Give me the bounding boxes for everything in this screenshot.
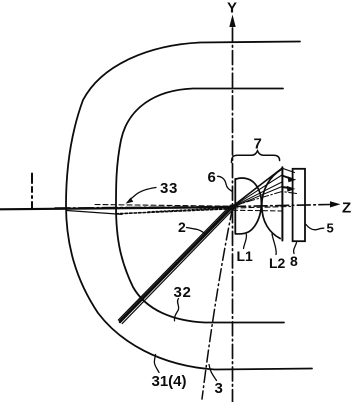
inner spherical surface 32/33 bbox=[116, 89, 284, 323]
lens L2 bbox=[262, 167, 283, 240]
ray dashed axis-near right bbox=[233, 207, 291, 209]
svg-text:Z: Z bbox=[342, 200, 351, 217]
cover plate 8 bbox=[293, 169, 305, 241]
outer spherical surface 31(4) bbox=[66, 42, 312, 370]
svg-text:8: 8 bbox=[290, 253, 298, 269]
Z axis bbox=[55, 201, 341, 208]
svg-text:5: 5 bbox=[327, 221, 334, 236]
svg-text:2: 2 bbox=[178, 219, 186, 235]
svg-text:3: 3 bbox=[215, 380, 223, 397]
svg-text:6: 6 bbox=[208, 169, 216, 186]
svg-text:33: 33 bbox=[160, 180, 178, 197]
svg-text:7: 7 bbox=[254, 136, 262, 153]
ray arrow lower into plate bbox=[287, 186, 296, 192]
object tick 1 (dashed) bbox=[31, 174, 33, 209]
brace 7 over lens group bbox=[232, 151, 280, 163]
node: focus knot at origin bbox=[230, 204, 235, 209]
Y axis bbox=[229, 15, 235, 403]
ray dashed below axis right bbox=[233, 209, 283, 212]
oblique axis line 3 bbox=[202, 208, 233, 399]
svg-text:31(4): 31(4) bbox=[152, 373, 187, 390]
ray dash-dot through lens bbox=[233, 192, 297, 207]
svg-text:Y: Y bbox=[227, 0, 237, 17]
lens L1 bbox=[235, 178, 261, 234]
ray fan through lenses bbox=[233, 168, 295, 207]
wire: beam ray dotted lower left bbox=[116, 209, 230, 214]
svg-text:32: 32 bbox=[174, 284, 192, 301]
wire: beam ray dashed upper left bbox=[95, 205, 231, 207]
wire: beam line left companion bbox=[67, 211, 122, 215]
wire: beam line left solid bbox=[0, 207, 233, 209]
svg-text:L1: L1 bbox=[237, 248, 254, 264]
svg-text:L2: L2 bbox=[269, 255, 286, 271]
wire: beam ray dotted lower left 2 bbox=[148, 208, 230, 212]
beam bundle 2 (oblique rays) bbox=[118, 205, 234, 324]
ray arrow upper into plate bbox=[288, 176, 297, 182]
